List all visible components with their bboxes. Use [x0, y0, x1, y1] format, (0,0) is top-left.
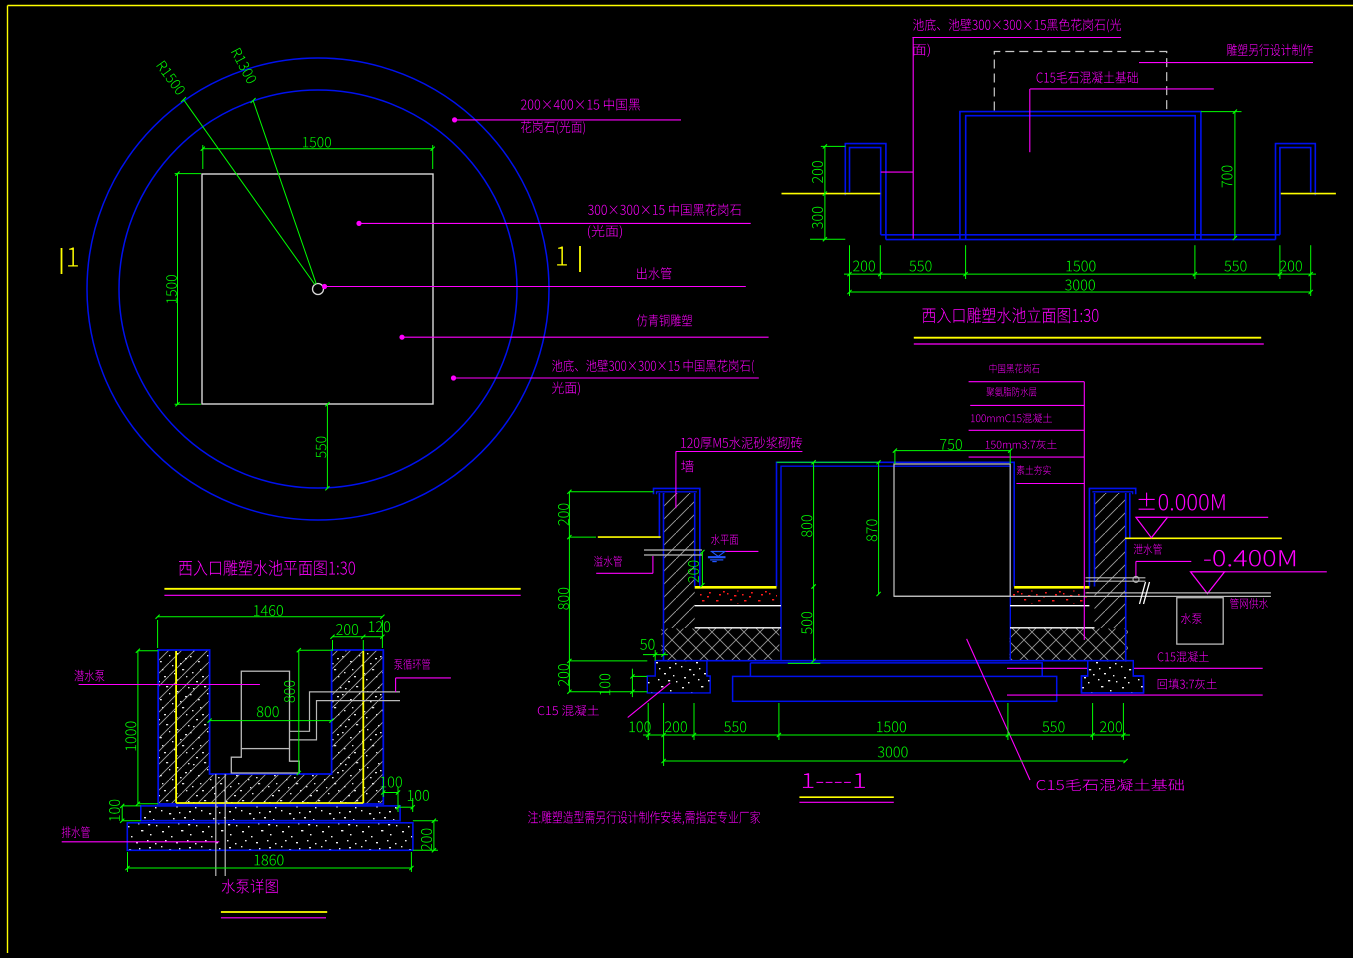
- elevation: dim text 200 left: [812, 161, 823, 183]
- elevation: granite leader branch: [881, 171, 913, 173]
- pump detail: submersible pump body: [241, 671, 289, 748]
- elevation: label 池底、池壁300x300x15黑色花岗石 line1: [913, 19, 1121, 33]
- section: right wall hatch: [1095, 493, 1126, 628]
- plan: title underline magenta: [164, 594, 520, 596]
- section: dim 800 pedestal line: [813, 462, 815, 586]
- pump detail: leader 潜水泵: [79, 684, 260, 686]
- section: white layer line2 right: [1010, 627, 1095, 629]
- section: layer underline5: [1016, 483, 1084, 485]
- section: overflow pipe: [644, 549, 702, 551]
- pump detail: label 潜水泵: [74, 670, 104, 682]
- section: dim 870 line: [878, 462, 880, 594]
- section: granite floor yellow right: [1014, 586, 1089, 589]
- section: level mark +-0.000M text: [1139, 493, 1225, 511]
- section: right wall cap: [1089, 488, 1135, 586]
- elevation: title 西入口雕塑水池立面图1:30: [923, 307, 1099, 323]
- section: leader C15 right: [1007, 667, 1263, 669]
- pump detail: dim text 100 upper-right: [381, 777, 402, 788]
- pump detail: label 排水管: [62, 826, 90, 838]
- section: pedestal top extension line: [777, 461, 881, 463]
- section: white layer line2 left: [695, 627, 781, 629]
- section: drain pipe A: [1086, 577, 1146, 579]
- pump detail: dim text 1000: [125, 722, 136, 751]
- section: right wall body left face: [1094, 493, 1096, 587]
- plan: leader line outlet pipe: [325, 286, 746, 288]
- section: right footing overpaint: [1082, 661, 1144, 693]
- pump detail: dim text 100 lower-right: [408, 790, 429, 801]
- section: label C15毛石混凝土基础 bottom: [1037, 779, 1184, 791]
- section: pump pit box: [1177, 598, 1223, 644]
- section: level mark +-0.000M line: [1136, 516, 1268, 518]
- section: dim 500 line: [813, 587, 815, 661]
- section: water level symbol triangle: [712, 552, 725, 557]
- pump detail: leader 泵循环管: [396, 677, 451, 679]
- elevation: ground line yellow right: [1281, 193, 1336, 195]
- pump detail: label 泵循环管: [394, 659, 430, 670]
- section: bottom dim texts: [629, 721, 650, 732]
- pump detail: dim text 800 horizontal: [257, 706, 279, 717]
- section: brick wall leader vertical: [675, 452, 677, 509]
- elevation: dim 3000 line: [850, 291, 1311, 293]
- pump detail: dim 800 vertical line: [298, 650, 300, 773]
- section: granite floor yellow left: [695, 586, 777, 589]
- pump detail: dim 1860 extensions: [127, 852, 129, 872]
- plan: pool inner circle R1300: [119, 90, 517, 488]
- pump detail: circulation pipe upper: [290, 692, 401, 731]
- plan: title 西入口雕塑水池平面图1:30: [179, 560, 355, 576]
- section: left floor crosshatch band: [661, 629, 779, 661]
- section: label 水平面: [711, 534, 738, 545]
- section: label C15混凝土 right: [1158, 651, 1209, 662]
- elevation: left dim extension top: [821, 145, 846, 147]
- plan: radius label R1500: [156, 60, 186, 96]
- pump detail: waterproof membrane yellow left: [175, 651, 177, 803]
- plan: section mark 1 left numeral: [68, 248, 78, 267]
- section: foundation slab upper: [750, 663, 1042, 677]
- elevation: label line2 面): [913, 44, 930, 58]
- elevation: label underline: [912, 37, 1121, 39]
- section: dim text 100 left: [599, 674, 610, 695]
- plan: label 200x400x15 granite line1: [521, 98, 640, 110]
- plan: dim 550 bottom: [326, 404, 328, 488]
- plan: leader line for 300x300 granite: [359, 222, 751, 224]
- pump detail: dim 200/120 line: [333, 636, 383, 638]
- elevation: dim 700 line: [1234, 112, 1236, 238]
- section: pipe breakline: [1140, 582, 1146, 604]
- section: label 管网供水: [1230, 598, 1268, 609]
- plan: section mark 1 right numeral: [557, 247, 567, 266]
- plan: section mark 1 left bar: [61, 248, 63, 274]
- section: label 泄水管: [1134, 544, 1162, 555]
- section: right floor crosshatch band: [1009, 629, 1128, 661]
- section: dim text 870: [866, 520, 877, 542]
- section: leader C15 left diagonal: [628, 683, 671, 718]
- section: left wall outer face above ground: [658, 493, 660, 538]
- plan: center nozzle circle: [313, 284, 324, 295]
- elevation: right rim outer contour: [1276, 144, 1316, 240]
- plan: leader line for 200x400 granite: [455, 119, 681, 121]
- section: sculpture foundation gray box: [894, 464, 1010, 596]
- section: left wall body left face: [663, 493, 665, 661]
- section: layer label 素土夯实: [1017, 465, 1051, 475]
- section: level mark -0.400M text: [1204, 550, 1295, 567]
- elevation: pedestal inner contour: [966, 116, 1195, 240]
- section: water level symbol bars: [708, 556, 726, 558]
- plan: label bronze sculpture 仿青铜雕塑: [637, 314, 692, 326]
- section: layer connector vertical: [1083, 382, 1085, 640]
- pump detail: dim 1460 extensions: [157, 620, 159, 648]
- elevation: left dim line 200/300: [824, 146, 826, 239]
- elevation: dim texts bottom row: [853, 261, 875, 272]
- section: layer label 150mm3:7灰土: [986, 440, 1057, 450]
- section: floor bottom line: [655, 660, 1134, 662]
- plan: leader dot outlet pipe: [322, 284, 327, 289]
- plan: dim text 550: [316, 437, 327, 458]
- pump detail: drain pipe vertical lines: [215, 774, 217, 876]
- section: dim text 200 bottom-left: [558, 664, 569, 686]
- section: dim 50 text: [640, 639, 654, 650]
- pump detail: dim text 800 vertical: [284, 681, 295, 703]
- elevation: left dim extension bottom: [810, 238, 845, 240]
- section: leader 回填 right: [1007, 694, 1263, 696]
- plan: leader dot for 300x300 granite: [356, 221, 361, 226]
- plan: dim 1500 horizontal extension lines: [202, 145, 204, 169]
- plan: title underline yellow: [164, 588, 520, 590]
- plan: label 300x300x15 granite line2: [588, 225, 622, 239]
- pump detail: dim 200 right extensions: [413, 820, 438, 822]
- section: leader C15毛石 diagonal: [967, 639, 1030, 780]
- pump detail: pump base flange: [231, 749, 299, 773]
- pump detail: dim text 120 top: [369, 621, 390, 632]
- pump detail: dim 800 horizontal line: [210, 720, 332, 722]
- elevation: pool floor upper line: [881, 234, 1280, 236]
- elevation: label 雕塑另行设计制作: [1227, 44, 1313, 56]
- elevation: left rim outer contour: [845, 144, 886, 240]
- section: left dim line 200/800/200: [568, 492, 570, 692]
- plan: leader line bronze sculpture: [402, 336, 769, 338]
- elevation: dim 700 extension: [1201, 111, 1242, 113]
- section: dim 3000 line: [664, 760, 1126, 762]
- elevation: title underline magenta: [914, 343, 1264, 345]
- elevation: left rim inner contour: [850, 148, 881, 235]
- plan: pool outer circle R1500: [87, 58, 549, 520]
- section: white layer line1 left: [695, 605, 781, 607]
- plan: label 200x400x15 granite line2: [521, 121, 585, 135]
- section: dim text 500: [801, 612, 812, 634]
- section: level mark +-0.000M triangle: [1136, 517, 1168, 538]
- plan: radius leader R1500: [184, 100, 315, 285]
- section: layer underline4: [969, 456, 1085, 458]
- section: right footing speckled: [1082, 661, 1144, 693]
- section: right wall body right face: [1125, 493, 1127, 661]
- pump detail: circulation pipe lower: [290, 701, 401, 740]
- section: right wall outer face above ground: [1129, 493, 1131, 538]
- section: bottom dim line 100/200/550/1500/550/200: [643, 734, 1130, 736]
- plan: leader dot bronze sculpture: [399, 335, 404, 340]
- pump detail: U-shaped pit blue outline: [158, 650, 383, 804]
- section: pedestal inner contour: [781, 466, 1010, 661]
- section: layer label 中国黑花岗石: [990, 364, 1040, 374]
- section: drain pipe end circle: [1133, 576, 1139, 582]
- section: brick wall label underline: [676, 451, 803, 453]
- pump detail: leader 排水管: [62, 841, 220, 843]
- pump detail: dim 1000 line: [137, 651, 139, 804]
- section: dim text 3000: [878, 747, 908, 758]
- pump detail: waterproof membrane yellow right: [362, 651, 364, 803]
- plan: label 300x300x15 granite line1: [588, 204, 741, 216]
- pump detail: dim 100 upper-right line: [383, 792, 398, 794]
- section: label 回填3:7灰土: [1158, 679, 1217, 690]
- plan: label outlet pipe 出水管: [637, 267, 671, 279]
- section: left wall cap: [654, 488, 700, 586]
- section: supply pipe B: [1086, 592, 1271, 594]
- pump detail: dim 100 left line: [121, 806, 123, 821]
- pump detail: dim 100 left extensions: [122, 805, 141, 807]
- elevation: right rim inner contour: [1280, 148, 1311, 235]
- section: foundation slab lower: [733, 676, 1057, 701]
- section: left footing speckled: [647, 661, 710, 693]
- plan: section mark 1 right bar: [579, 246, 581, 272]
- elevation: bottom dim line 200/550/1500/550/200: [844, 273, 1316, 275]
- drawing frame left border: [7, 6, 9, 954]
- pump detail: wall speckle overlay: [158, 650, 383, 804]
- section: mortar red speckle band right: [1013, 591, 1089, 604]
- pump detail: dim 1860 line: [128, 867, 412, 869]
- elevation: leader C15毛石混凝土基础 underline: [1030, 88, 1214, 90]
- elevation: dim text 700: [1222, 166, 1233, 188]
- section: left wall body right face: [694, 493, 696, 587]
- drawing frame top border: [8, 5, 1353, 7]
- plan: dim text 1500 top: [303, 137, 331, 148]
- pump detail: title underline magenta: [221, 917, 326, 919]
- section: dim text 200 top-left: [558, 504, 569, 526]
- elevation: pool floor lower line: [886, 239, 1276, 241]
- note: sculpture fabrication note: [528, 811, 760, 825]
- pump detail: dim 1000 extensions: [138, 650, 158, 652]
- pump detail: dim text 200 right: [421, 829, 432, 851]
- plan: dim 1500 vertical extension lines: [175, 173, 201, 175]
- section: pedestal top outer: [777, 462, 1015, 586]
- section: title underline yellow: [799, 796, 893, 798]
- pump detail: lower base slab with speckle: [127, 823, 413, 851]
- elevation: leader 雕塑另行设计制作: [1139, 62, 1313, 64]
- pump detail: dim 200/120 extensions: [332, 640, 334, 651]
- section: dim 50 line: [643, 654, 668, 656]
- pump detail: title underline yellow: [221, 911, 327, 913]
- section: layer label 100mmC15混凝土: [971, 413, 1052, 423]
- section: dim 750 line: [895, 450, 1010, 452]
- section: brick wall label line1: [681, 437, 802, 449]
- section: label 溢水管: [594, 556, 622, 567]
- plan: leader dot pool bottom granite: [451, 375, 456, 380]
- section: layer underline3: [969, 429, 1085, 431]
- section: ground yellow right: [1125, 537, 1282, 539]
- section: leader 泄水管: [1136, 560, 1191, 562]
- pump detail: dim 100 lower-right line: [398, 806, 413, 808]
- section: level mark -0.400M line: [1191, 571, 1327, 573]
- plan: label pool bottom granite line2: [552, 382, 580, 396]
- plan: central square pedestal outline: [202, 174, 433, 404]
- pump detail: dim 200 right line: [433, 821, 435, 851]
- section: dim 200 water depth line: [701, 552, 703, 585]
- pump detail: dim text 200 top: [336, 624, 358, 635]
- section: label 水泵: [1181, 613, 1202, 624]
- pump detail: dim 800 vertical extension: [299, 649, 332, 651]
- elevation: title underline yellow: [914, 337, 1261, 339]
- section: ground yellow left: [598, 536, 661, 538]
- section: water level underline: [711, 550, 758, 552]
- pump detail: title 水泵详图: [222, 879, 278, 894]
- section: left wall hatch: [664, 493, 695, 628]
- plan: leader dot for 200x400 granite: [452, 117, 457, 122]
- section: brick wall label line2 墙: [681, 460, 694, 472]
- section: mortar red speckle band left: [697, 591, 777, 604]
- section: layer underline1: [969, 381, 1085, 383]
- pump detail: dim 1460 line: [158, 616, 383, 618]
- elevation: dim text 3000: [1065, 280, 1095, 291]
- section: label C15混凝土 left: [538, 705, 599, 716]
- pump detail: upper base slab with speckle: [141, 806, 400, 821]
- pump detail: dim 100 upper-right extensions: [382, 787, 384, 797]
- elevation: ground line yellow left: [782, 193, 881, 195]
- elevation: bottom dim extension lines: [849, 245, 851, 296]
- section: title underline magenta: [799, 801, 893, 803]
- elevation: granite leader vertical: [912, 38, 914, 239]
- section: layer label 聚氨脂防水层: [987, 387, 1037, 397]
- section: left dim extension lines: [569, 491, 653, 493]
- section: dim text 200 water depth: [688, 561, 699, 583]
- plan: dim 1500 horizontal: [203, 148, 433, 150]
- section: dim text 800 left: [558, 588, 569, 610]
- section: leader 溢水管: [596, 572, 653, 574]
- pump detail: dim text 100 left: [109, 800, 120, 821]
- elevation: leader C15毛石混凝土基础 vertical: [1029, 89, 1031, 152]
- pump detail: dim text 1460: [254, 605, 283, 616]
- plan: label pool bottom granite line1: [552, 360, 754, 374]
- plan: radius leader R1300: [253, 101, 316, 284]
- section: bottom dim extension lines: [647, 703, 649, 740]
- section: layer underline2: [970, 404, 1084, 406]
- elevation: label C15毛石混凝土基础: [1037, 71, 1138, 83]
- plan: dim 1500 vertical: [177, 174, 179, 405]
- plan: dim text 1500 left: [166, 275, 177, 303]
- plan: leader line pool bottom granite: [454, 377, 759, 379]
- section: dim 100 left line: [631, 669, 633, 697]
- section: dim text 750: [940, 439, 962, 450]
- pump detail: waterproof membrane yellow bottom: [176, 802, 363, 804]
- pump detail: dim text 1860: [255, 855, 284, 866]
- elevation: pedestal outer contour: [960, 112, 1201, 240]
- section: level mark -0.400M triangle: [1191, 572, 1225, 594]
- elevation: sculpture dashed outline: [994, 52, 1166, 111]
- section: white layer line1 right: [1010, 605, 1089, 607]
- pump detail: wall hatch fill: [158, 650, 383, 804]
- elevation: dim text 300 left: [812, 207, 823, 229]
- plan: radius label R1300: [231, 48, 257, 85]
- section: dim text 800 pedestal: [801, 515, 812, 537]
